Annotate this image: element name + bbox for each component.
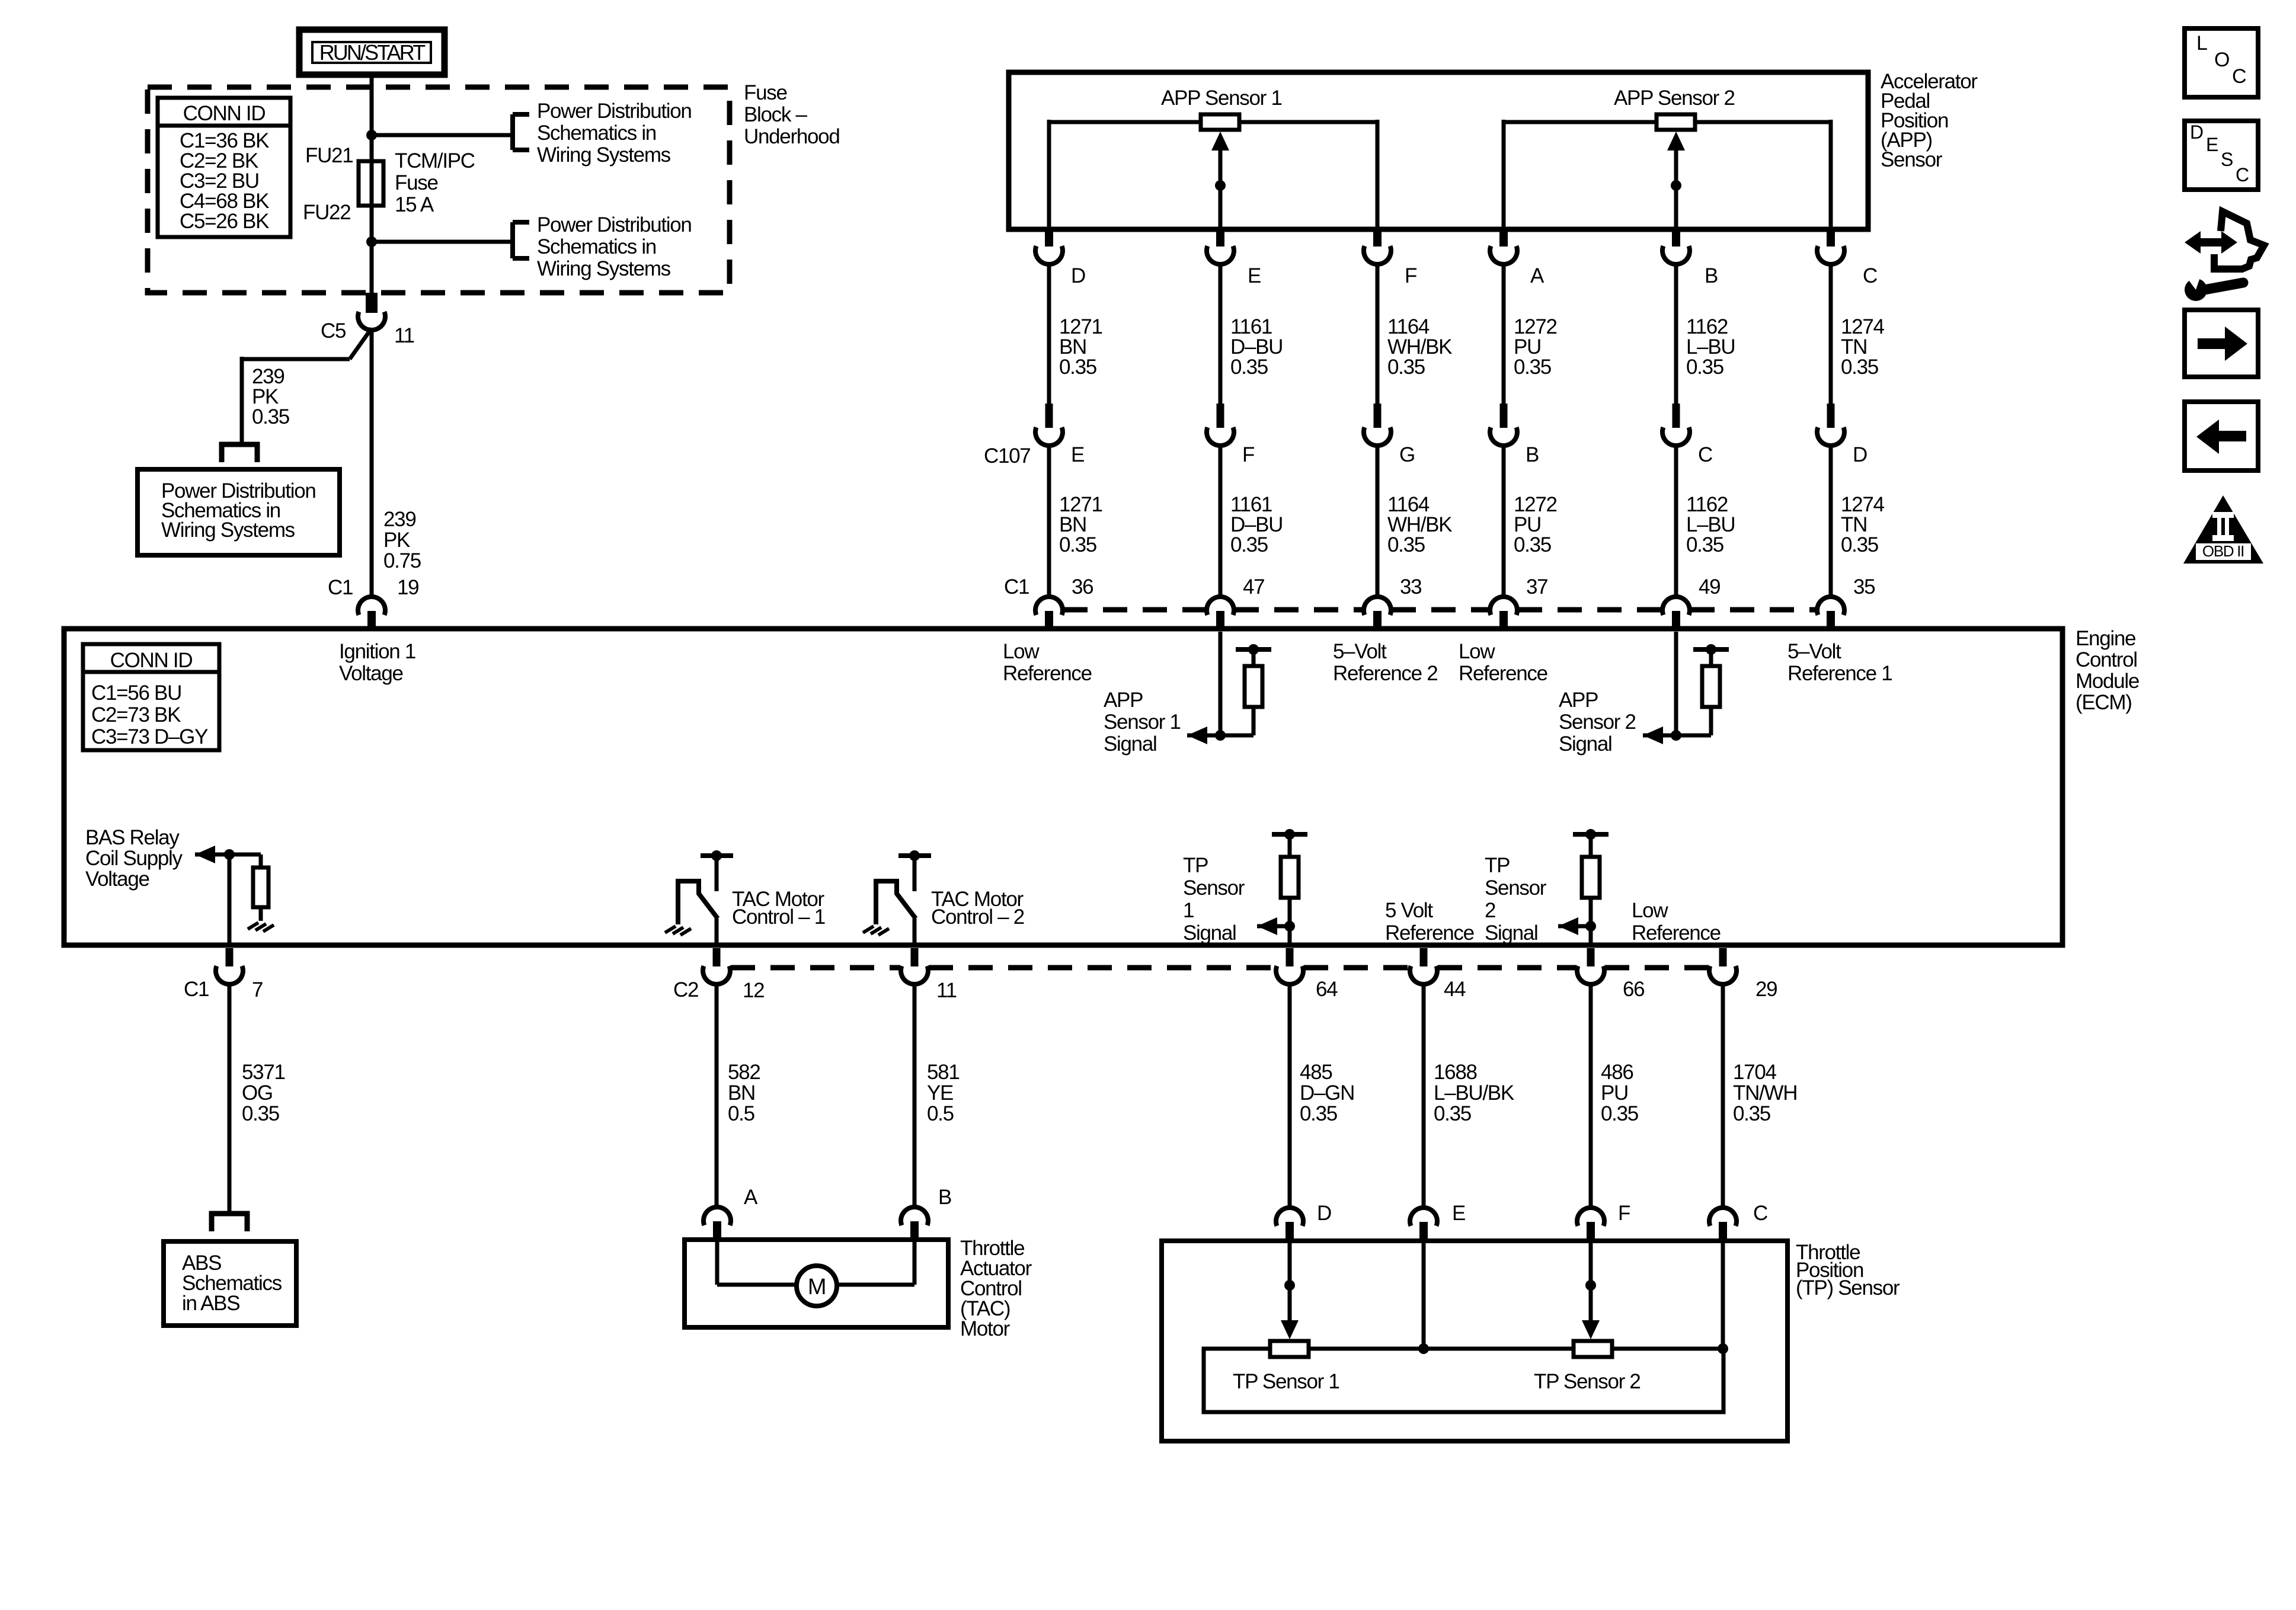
icon OBD II triangle: [2183, 495, 2263, 564]
junction dot BAS relay: [224, 849, 235, 860]
svg-text:G: G: [1399, 443, 1415, 466]
svg-text:Wiring Systems: Wiring Systems: [537, 143, 671, 167]
connector C107 pin G: [1364, 404, 1391, 446]
wire BAS relay to pin 7: [228, 854, 232, 946]
svg-text:7: 7: [252, 978, 263, 1001]
wiper arrow APP Sensor 1: [1211, 132, 1229, 229]
connector C2 pin 11: [901, 948, 928, 984]
label pin 29: [1755, 978, 1777, 1001]
svg-text:Control: Control: [2076, 648, 2137, 671]
svg-text:0.35: 0.35: [1514, 356, 1551, 379]
connector TP sensor pin C: [1709, 1208, 1737, 1241]
wiper arrow TP sensor 1: [1281, 1320, 1299, 1339]
svg-text:TCM/IPC: TCM/IPC: [395, 149, 475, 172]
svg-text:Schematics in: Schematics in: [537, 235, 656, 258]
label pin 33: [1400, 575, 1421, 598]
label 1271 BN lower: [1059, 493, 1102, 556]
svg-text:0.35: 0.35: [1387, 533, 1425, 556]
label Throttle Actuator Control (TAC) Motor: [960, 1237, 1032, 1340]
wiper arrow APP Sensor 2: [1667, 132, 1685, 229]
svg-text:0.5: 0.5: [728, 1102, 754, 1125]
svg-text:BN: BN: [728, 1081, 755, 1105]
svg-text:Reference: Reference: [1003, 662, 1092, 685]
off-page staple to power distribution: [222, 444, 257, 462]
svg-text:E: E: [2206, 134, 2218, 155]
svg-text:C5: C5: [321, 319, 346, 343]
svg-text:582: 582: [728, 1061, 760, 1084]
svg-text:Reference 1: Reference 1: [1787, 662, 1892, 685]
label 11 pin: [936, 979, 957, 1002]
connector C1 pin 29: [1709, 948, 1737, 984]
wire APP to C107 circuit 1162: [1674, 265, 1678, 404]
svg-text:0.35: 0.35: [252, 405, 289, 428]
svg-text:Control – 2: Control – 2: [931, 905, 1024, 929]
connector C1 pin 37: [1490, 597, 1517, 629]
wire TP2 bar to resistor: [1589, 834, 1593, 857]
svg-text:1: 1: [1183, 899, 1194, 922]
connector C1 pin 19: [358, 597, 385, 629]
label TP pin F: [1618, 1202, 1630, 1225]
wire APP to C107 circuit 1272: [1502, 265, 1506, 404]
svg-text:C: C: [2236, 164, 2249, 185]
junction dot lower: [366, 236, 377, 247]
label 5371 OG 0.35: [242, 1061, 285, 1125]
svg-text:5–Volt: 5–Volt: [1787, 640, 1841, 663]
wire pot2 right: [1695, 120, 1831, 229]
label 5-Volt Reference 2: [1333, 640, 1437, 685]
switch TAC motor control 1: [678, 881, 718, 924]
svg-text:37: 37: [1526, 575, 1547, 598]
svg-text:CONN ID: CONN ID: [183, 102, 266, 125]
junction dot TP F: [1585, 1280, 1596, 1291]
svg-text:Wiring Systems: Wiring Systems: [537, 257, 671, 280]
label pin A: [1530, 264, 1544, 287]
svg-text:1688: 1688: [1434, 1061, 1477, 1084]
svg-text:Engine: Engine: [2076, 627, 2135, 650]
half bracket ref 2: [513, 222, 529, 258]
svg-text:0.5: 0.5: [927, 1102, 954, 1125]
wire TP1 bar to resistor: [1288, 834, 1292, 857]
wire circuit 485 to TP sensor: [1288, 984, 1292, 1208]
icon LOC box: [2185, 28, 2258, 97]
connector C1 pin 44: [1410, 948, 1437, 984]
arrow APP Sensor 1 Signal: [1187, 726, 1207, 744]
svg-text:Power Distribution: Power Distribution: [537, 100, 692, 123]
svg-text:A: A: [1530, 264, 1544, 287]
power distribution schematics box: [137, 469, 340, 555]
label TCM/IPC Fuse 15 A: [395, 149, 475, 216]
label C107 pin C: [1698, 443, 1712, 466]
connector APP pin C: [1817, 231, 1844, 264]
svg-text:Low: Low: [1459, 640, 1495, 663]
connector TAC motor pin B: [901, 1207, 928, 1241]
connector C107 pin F: [1207, 404, 1234, 446]
fuse block CONN ID table: [158, 98, 290, 237]
svg-text:C3=73 D–GY: C3=73 D–GY: [91, 725, 208, 748]
svg-text:APP Sensor 2: APP Sensor 2: [1614, 87, 1735, 110]
wire to power distribution ref 2: [372, 240, 513, 244]
svg-text:E: E: [1248, 264, 1261, 287]
svg-text:Reference: Reference: [1385, 921, 1474, 945]
resistor BAS relay: [253, 868, 268, 907]
ECM box outline: [64, 629, 2062, 945]
svg-text:49: 49: [1699, 575, 1720, 598]
wire to power distribution ref 1: [372, 133, 513, 137]
wire branch diagonal from C5: [350, 328, 372, 359]
svg-text:5–Volt: 5–Volt: [1333, 640, 1387, 663]
label TP Sensor 2: [1534, 1370, 1641, 1393]
label 1161 D–BU lower: [1230, 493, 1283, 556]
label TP pin E: [1452, 1202, 1465, 1225]
svg-text:66: 66: [1623, 978, 1644, 1001]
svg-text:11: 11: [394, 324, 414, 347]
wire APP2 signal horizontal: [1643, 707, 1711, 735]
label C2: [673, 978, 698, 1001]
wire circuit 486 to TP sensor: [1589, 984, 1593, 1208]
off-page staple to ABS: [212, 1214, 247, 1231]
wire APP to C107 circuit 1271: [1047, 265, 1051, 404]
connector TP sensor pin E: [1410, 1208, 1437, 1241]
svg-text:Block –: Block –: [744, 103, 808, 126]
wire TAC1 control stub: [715, 856, 719, 891]
svg-text:C: C: [1863, 264, 1877, 287]
wire C107 to ECM circuit 1161: [1219, 445, 1223, 597]
svg-text:C1=56 BU: C1=56 BU: [91, 681, 181, 705]
connector C107 pin B: [1490, 404, 1517, 446]
wire APP to C107 circuit 1161: [1219, 265, 1223, 404]
svg-text:Voltage: Voltage: [339, 662, 403, 685]
svg-text:485: 485: [1300, 1061, 1332, 1084]
connector APP pin A: [1490, 231, 1517, 264]
termination bar TP1: [1272, 829, 1307, 840]
wire C107 to ECM circuit 1162: [1674, 445, 1678, 597]
svg-text:581: 581: [927, 1061, 960, 1084]
svg-text:B: B: [1705, 264, 1718, 287]
half bracket ref 1: [513, 114, 529, 150]
svg-text:Signal: Signal: [1559, 732, 1612, 756]
wire TAC1 pole to pin 12: [715, 918, 719, 946]
label pin F: [1405, 264, 1416, 287]
svg-text:C1: C1: [1004, 575, 1029, 598]
svg-text:0.35: 0.35: [1387, 356, 1425, 379]
connector TP sensor pin F: [1577, 1208, 1604, 1241]
ground TAC1: [665, 926, 691, 935]
svg-text:(TP) Sensor: (TP) Sensor: [1796, 1276, 1900, 1299]
label pin B: [1705, 264, 1718, 287]
svg-text:2: 2: [1485, 899, 1495, 922]
svg-text:0.35: 0.35: [1686, 356, 1723, 379]
svg-text:OBD II: OBD II: [2202, 542, 2244, 560]
svg-text:TP: TP: [1485, 854, 1510, 877]
label 12: [743, 979, 764, 1002]
svg-text:Module: Module: [2076, 670, 2139, 693]
icon vehicle communication: [2183, 212, 2264, 301]
connector APP pin B: [1662, 231, 1690, 264]
connector C1 pin 47: [1207, 597, 1234, 629]
wire pin 49 internal: [1674, 632, 1678, 735]
svg-text:C1: C1: [184, 978, 209, 1001]
wire branch vertical: [240, 357, 244, 443]
label 1274 TN: [1841, 315, 1884, 379]
resistor APP1 pull-up: [1245, 666, 1262, 707]
connector TP sensor pin D: [1276, 1208, 1303, 1241]
svg-text:C2=73 BK: C2=73 BK: [91, 703, 181, 726]
TP sensor box outline: [1162, 1241, 1787, 1441]
label 239 PK 0.35: [252, 365, 289, 428]
wire TAC2 control stub: [913, 856, 917, 891]
svg-text:C107: C107: [984, 444, 1030, 468]
svg-text:APP: APP: [1104, 689, 1143, 712]
svg-text:Reference: Reference: [1459, 662, 1547, 685]
svg-text:0.35: 0.35: [1514, 533, 1551, 556]
wire TP1 resistor to junction: [1288, 898, 1292, 926]
fuse block dashed outline: [148, 87, 730, 293]
svg-text:CONN ID: CONN ID: [110, 649, 193, 672]
wire APP to C107 circuit 1274: [1829, 265, 1833, 404]
svg-text:47: 47: [1243, 575, 1264, 598]
label pin C: [1863, 264, 1877, 287]
dashed harness line at ECM bottom connectors: [731, 965, 1709, 971]
wire pin 11 to TAC motor B: [913, 984, 917, 1207]
label 1161 D–BU: [1230, 315, 1283, 379]
arrow TP Sensor 2 Signal: [1558, 917, 1578, 935]
wire TP D internal: [1288, 1242, 1292, 1321]
resistor TP1 pull-up: [1281, 857, 1299, 898]
svg-text:Sensor 1: Sensor 1: [1104, 710, 1181, 734]
label pin D: [1071, 264, 1085, 287]
wire TP1 to pin 64: [1288, 926, 1292, 946]
junction dot wiper 1: [1215, 180, 1226, 191]
wire pot1 right: [1239, 120, 1377, 229]
label 19: [397, 576, 418, 599]
label 1164 WH/BK: [1387, 315, 1452, 379]
power feed box RUN/START: [299, 30, 445, 75]
icon arrow left box: [2185, 402, 2258, 470]
svg-text:15 A: 15 A: [395, 193, 434, 216]
label pin E: [1248, 264, 1261, 287]
dashed harness line at ECM C1 connectors: [1063, 607, 1817, 613]
connector C1 pin 64: [1276, 948, 1303, 984]
svg-text:29: 29: [1755, 978, 1777, 1001]
svg-text:D–GN: D–GN: [1300, 1081, 1354, 1105]
wire from RUN/START into fuse block: [370, 75, 374, 161]
svg-text:E: E: [1071, 443, 1084, 466]
svg-text:Wiring Systems: Wiring Systems: [161, 518, 295, 542]
svg-text:TP: TP: [1183, 854, 1208, 877]
svg-text:Sensor 2: Sensor 2: [1559, 710, 1636, 734]
wire C107 to ECM circuit 1164: [1376, 445, 1380, 597]
label 11: [394, 324, 414, 347]
svg-text:APP: APP: [1559, 689, 1598, 712]
svg-text:5371: 5371: [242, 1061, 285, 1084]
label APP Sensor 2: [1614, 87, 1735, 110]
termination bar TP2: [1573, 829, 1609, 840]
wire junction to fuse block edge: [370, 242, 374, 293]
svg-text:TP Sensor 1: TP Sensor 1: [1233, 1370, 1339, 1393]
wire pot2 left: [1504, 120, 1657, 229]
wire C107 to ECM circuit 1274: [1829, 445, 1833, 597]
label C1 at pin 7: [184, 978, 209, 1001]
label 1162 L–BU: [1686, 315, 1735, 379]
connector TAC motor pin A: [703, 1207, 731, 1241]
svg-text:0.35: 0.35: [1841, 356, 1878, 379]
svg-text:Ignition 1: Ignition 1: [339, 640, 415, 663]
svg-text:12: 12: [743, 979, 764, 1002]
label 582 BN 0.5: [728, 1061, 760, 1125]
label Low Reference pin 36: [1003, 640, 1092, 685]
svg-text:in ABS: in ABS: [182, 1292, 239, 1315]
svg-text:0.35: 0.35: [1300, 1102, 1337, 1125]
potentiometer TP Sensor 1: [1270, 1341, 1309, 1357]
svg-text:Coil Supply: Coil Supply: [85, 847, 183, 870]
svg-text:PK: PK: [383, 529, 410, 552]
arrow APP Sensor 2 Signal: [1643, 726, 1663, 744]
wire pin 12 to TAC motor A: [715, 984, 719, 1207]
svg-text:64: 64: [1316, 978, 1338, 1001]
svg-text:FU21: FU21: [305, 144, 353, 167]
label Accelerator Pedal Position (APP) Sensor: [1881, 70, 1978, 171]
svg-text:M: M: [808, 1275, 826, 1299]
label BAS Relay Coil Supply Voltage: [85, 826, 183, 891]
svg-text:Signal: Signal: [1104, 732, 1157, 756]
label 7: [252, 978, 263, 1001]
fuse FU21/FU22 TCM/IPC 15A element: [359, 161, 383, 206]
connector C5 pin 11: [358, 293, 385, 330]
label 1164 WH/BK lower: [1387, 493, 1452, 556]
svg-text:F: F: [1242, 443, 1254, 466]
wire APP to C107 circuit 1164: [1376, 265, 1380, 404]
label pin B: [938, 1186, 951, 1209]
svg-text:Motor: Motor: [960, 1317, 1011, 1340]
svg-text:Sensor: Sensor: [1485, 876, 1547, 900]
wire TP2 resistor to junction: [1589, 898, 1593, 926]
wire branch horizontal: [240, 357, 350, 361]
svg-text:Power Distribution: Power Distribution: [537, 213, 692, 236]
junction dot TP D: [1284, 1280, 1295, 1291]
label APP Sensor 1 Signal: [1104, 689, 1181, 756]
label C107 pin D: [1853, 443, 1867, 466]
resistor APP2 pull-up: [1702, 666, 1720, 707]
label TAC Motor Control - 2: [931, 888, 1024, 929]
svg-text:Underhood: Underhood: [744, 125, 840, 148]
svg-text:B: B: [1526, 443, 1539, 466]
label pin 64: [1316, 978, 1338, 1001]
svg-text:0.35: 0.35: [1059, 356, 1096, 379]
wire TP2 to pin 66: [1589, 926, 1593, 946]
svg-text:C: C: [1753, 1202, 1767, 1225]
label TP Sensor 2 Signal: [1485, 854, 1547, 945]
wire pot1 left: [1049, 120, 1201, 229]
label Throttle Position (TP) Sensor: [1796, 1241, 1900, 1299]
TP inner frame: [1204, 1349, 1723, 1412]
wire BAS relay horizontal: [195, 854, 261, 868]
svg-text:Signal: Signal: [1485, 921, 1538, 945]
junction dot upper: [366, 130, 377, 140]
label Low Reference pin 29: [1632, 899, 1721, 945]
label FU21: [305, 144, 353, 167]
svg-text:Fuse: Fuse: [395, 171, 438, 194]
svg-text:0.35: 0.35: [1601, 1102, 1638, 1125]
connector C107 pin D: [1817, 404, 1844, 446]
svg-text:Fuse: Fuse: [744, 81, 787, 104]
label pin 47: [1243, 575, 1264, 598]
wire circuit 1704 to TP sensor: [1721, 984, 1725, 1208]
svg-text:YE: YE: [927, 1081, 953, 1105]
svg-text:19: 19: [397, 576, 418, 599]
label pin 36: [1072, 575, 1093, 598]
svg-text:239: 239: [383, 508, 416, 531]
arrow BAS relay: [195, 846, 215, 863]
svg-text:Low: Low: [1003, 640, 1040, 663]
label 239 PK 0.75: [383, 508, 421, 572]
connector C1 pin 66: [1577, 948, 1604, 984]
label C107: [984, 444, 1030, 468]
wire TP1 arrow line: [1257, 924, 1290, 929]
label TAC Motor Control - 1: [732, 888, 825, 929]
connector C107 pin C: [1662, 404, 1690, 446]
label 5 Volt Reference pin 44: [1385, 899, 1474, 945]
junction dot TP bus E: [1418, 1343, 1429, 1354]
svg-text:F: F: [1618, 1202, 1630, 1225]
connector C1 pin 36: [1035, 597, 1063, 629]
svg-text:0.75: 0.75: [383, 549, 421, 572]
wire fuse to lower junction: [370, 206, 374, 242]
potentiometer TP Sensor 2: [1574, 1341, 1612, 1357]
svg-text:TP Sensor 2: TP Sensor 2: [1534, 1370, 1641, 1393]
wire APP1 resistor top: [1252, 649, 1256, 666]
ABS schematics box: [164, 1241, 296, 1326]
label 486 PU: [1601, 1061, 1638, 1125]
wire TP C internal: [1721, 1242, 1725, 1349]
label APP Sensor 1: [1161, 87, 1282, 110]
svg-text:33: 33: [1400, 575, 1421, 598]
svg-text:36: 36: [1072, 575, 1093, 598]
label Low Reference pin 37: [1459, 640, 1547, 685]
svg-text:RUN/START: RUN/START: [319, 40, 426, 65]
label 1271 BN: [1059, 315, 1102, 379]
connector C1 pin 33: [1364, 597, 1391, 629]
svg-text:0.35: 0.35: [1841, 533, 1878, 556]
motor M symbol: [797, 1266, 837, 1306]
label 5-Volt Reference 1: [1787, 640, 1892, 685]
label C107 pin E: [1071, 443, 1084, 466]
svg-text:C: C: [1698, 443, 1712, 466]
junction dot TP2 signal: [1585, 921, 1596, 932]
label 581 YE 0.5: [927, 1061, 960, 1125]
wire pin 7 to ABS: [228, 984, 232, 1213]
termination bar APP1: [1236, 644, 1271, 655]
svg-text:(ECM): (ECM): [2076, 691, 2132, 714]
label 485 D–GN: [1300, 1061, 1354, 1125]
connector APP pin E: [1207, 231, 1234, 264]
label 1272 PU lower: [1514, 493, 1557, 556]
wiper arrow TP sensor 2: [1582, 1320, 1600, 1339]
svg-text:TN/WH: TN/WH: [1733, 1081, 1797, 1105]
svg-text:C2: C2: [673, 978, 698, 1001]
wire C5 to C1 ignition feed: [370, 328, 374, 597]
junction dot wiper 2: [1671, 180, 1681, 191]
svg-text:Signal: Signal: [1183, 921, 1236, 945]
label pin 37: [1526, 575, 1547, 598]
connector APP pin D: [1035, 231, 1063, 264]
connector C1 pin 35: [1817, 597, 1844, 629]
resistor TP2 pull-up: [1582, 857, 1600, 898]
label 1688 L–BU/BK: [1434, 1061, 1514, 1125]
label C1 at ECM top: [1004, 575, 1029, 598]
svg-text:D: D: [1071, 264, 1085, 287]
termination bar TAC1: [701, 850, 733, 861]
svg-text:C: C: [2232, 65, 2246, 88]
